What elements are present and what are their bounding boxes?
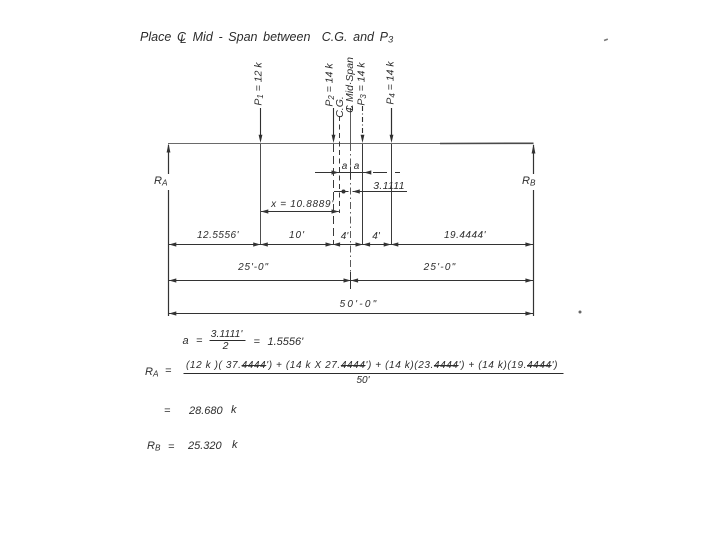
a-a dimension line bbox=[315, 172, 400, 174]
dim text 3.1111 bbox=[373, 180, 405, 191]
C.G. dashed line bbox=[339, 116, 341, 213]
load arrow P3 (dash-dot shaft) bbox=[362, 106, 364, 135]
dim text x = 10.8889' bbox=[271, 200, 334, 210]
calc RA equation bbox=[145, 367, 158, 379]
reaction RB arrow and right extension line bbox=[533, 145, 535, 316]
calc = 28.680 k bbox=[164, 406, 170, 417]
label P3 = 14 k bbox=[356, 62, 367, 105]
P4 extension line below beam bbox=[391, 144, 393, 244]
x = 10.8889' dimension line bbox=[261, 211, 339, 213]
dimension line row 1 (12.5556/10/4/4/19.4444) bbox=[169, 244, 534, 246]
dim text 10' bbox=[289, 231, 305, 241]
dim text a a bbox=[342, 162, 348, 172]
dimension line row 3 (50'-0") bbox=[169, 313, 534, 315]
label P4 = 14 k bbox=[385, 61, 396, 104]
fraction bar a = 3.1111'/2 bbox=[210, 340, 246, 342]
centerline mid-span (dash-dot) bbox=[350, 108, 352, 144]
calc a = 3.1111'/2 = 1.5556' bbox=[183, 336, 189, 347]
label P1 = 12 k bbox=[253, 62, 264, 105]
fraction bar RA equation bbox=[184, 373, 564, 375]
P2 extension line below beam (dashed) bbox=[333, 144, 335, 244]
dim text 4' bbox=[341, 232, 348, 242]
label P2 = 14 k bbox=[324, 63, 335, 106]
stray speck bbox=[579, 311, 582, 314]
P3 extension line below beam bbox=[362, 144, 364, 244]
centerline tick at a-a dimension bbox=[350, 167, 352, 180]
centerline tick at 25' dimension bbox=[350, 272, 352, 289]
dim text 25'-0" left bbox=[238, 263, 269, 273]
beam bbox=[168, 142, 534, 144]
load arrow P1 bbox=[260, 108, 262, 136]
label CL Mid-Span bbox=[345, 57, 356, 113]
load arrow P4 bbox=[391, 108, 393, 136]
label RB bbox=[522, 176, 535, 188]
label C.G. bbox=[334, 96, 345, 118]
arrowheads row 1 bbox=[169, 242, 533, 246]
dim text 25'-0" right bbox=[424, 263, 457, 273]
3.1111 dimension line bbox=[334, 191, 407, 193]
title: Place CL Mid-Span between C.G. and P3 bbox=[140, 31, 393, 45]
load arrow P2 bbox=[333, 108, 335, 136]
dim text 12.5556' bbox=[197, 231, 239, 241]
reaction RA arrow and left extension line bbox=[168, 145, 170, 316]
dim text 50'-0" bbox=[340, 300, 379, 310]
dim text 4' bbox=[372, 232, 379, 242]
dimension line row 2 (25'-0" / 25'-0") bbox=[169, 280, 534, 282]
P1 extension line below beam bbox=[260, 144, 262, 244]
label RA bbox=[154, 176, 167, 188]
dim text 19.4444' bbox=[444, 231, 486, 241]
calc RB = 25.320 k bbox=[147, 441, 160, 453]
